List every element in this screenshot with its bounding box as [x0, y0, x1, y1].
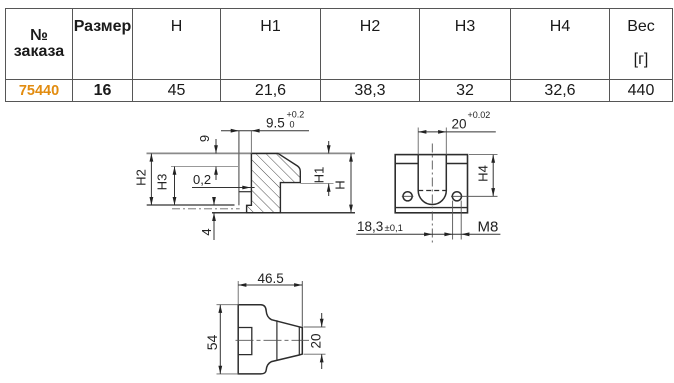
dimension 20 lower arrow (plan): [321, 354, 323, 369]
svg-text:9: 9: [197, 135, 212, 142]
inner ledge extension line: [171, 166, 239, 168]
plan view outline: [238, 305, 302, 374]
dimension 9.5 line: [221, 130, 309, 132]
svg-text:20: 20: [309, 333, 324, 348]
dimension H2 line: [150, 153, 152, 205]
svg-text:54: 54: [204, 335, 220, 351]
right hole centerline / H4 extension: [451, 195, 498, 197]
svg-text:9.5: 9.5: [266, 116, 285, 131]
dimension H line: [350, 153, 352, 212]
bottom-left dash-dot centerline: [172, 208, 240, 210]
left view top surface line: [147, 152, 356, 154]
dimension 20 line (front): [418, 131, 496, 133]
slot left wall front: [417, 155, 419, 191]
front view lower inner line: [395, 207, 467, 209]
left view bottom line: [212, 212, 355, 214]
svg-text:+0.2: +0.2: [287, 110, 305, 120]
svg-text:H1: H1: [311, 167, 326, 184]
slot bottom arc: [418, 191, 446, 205]
dimension H4 line: [492, 155, 494, 197]
leader 0,2 line: [192, 187, 255, 189]
dimension 46.5 line: [238, 284, 302, 286]
vertical centerline front: [431, 144, 433, 245]
dimension H1 (lower arrow): [328, 184, 330, 197]
svg-text:0: 0: [290, 120, 295, 130]
54 top extension: [217, 304, 239, 306]
plan horizontal centerline: [236, 339, 310, 341]
H4 top extension line: [469, 154, 498, 156]
plan inner slot rectangle: [238, 328, 252, 355]
front view upper inner line left: [395, 163, 418, 165]
54 bottom extension: [217, 373, 239, 375]
left side hole M8: [403, 192, 412, 201]
dimension H1 (upper arrow): [328, 141, 330, 153]
46.5 left extension: [237, 281, 239, 305]
dimension 4 (lower arrow): [213, 213, 215, 240]
slot right wall extension: [250, 131, 252, 154]
svg-text:H3: H3: [154, 174, 169, 191]
svg-text:4: 4: [199, 228, 214, 235]
slot right wall front: [445, 155, 447, 191]
hatched section polygon: [247, 153, 301, 212]
dimension 54 line: [219, 305, 221, 374]
dimension 9 (upper arrow): [215, 139, 217, 153]
svg-text:0,2: 0,2: [193, 172, 211, 187]
slot inner step line: [239, 191, 252, 193]
svg-text:46.5: 46.5: [258, 271, 284, 286]
svg-text:20: 20: [452, 116, 467, 131]
front view upper inner line right: [446, 163, 467, 165]
bottom-left surface line: [147, 204, 235, 206]
H1 bottom extension line: [300, 183, 333, 185]
svg-text:M8: M8: [478, 219, 499, 236]
slot left wall: [238, 131, 240, 206]
plan slot-bottom edge line: [276, 320, 278, 360]
svg-text:18,3: 18,3: [357, 219, 383, 234]
dimension 4 (upper arrow): [213, 198, 215, 206]
dimension 20 upper arrow (plan): [321, 313, 323, 327]
bottom dimension line 18,3 / M8: [356, 233, 500, 235]
plan neck inner edge: [298, 327, 300, 355]
left hole centerline: [402, 195, 414, 197]
dimension 9 (lower arrow): [215, 167, 217, 181]
dimension H3 line: [174, 167, 176, 206]
hole wall extension lines below: [452, 201, 454, 240]
svg-text:H2: H2: [133, 169, 148, 186]
data table: [5, 8, 673, 102]
svg-text:±0,1: ±0,1: [385, 223, 403, 234]
front view outer rectangle: [395, 155, 467, 213]
20 top extension (plan): [304, 326, 326, 328]
svg-text:+0.02: +0.02: [468, 110, 491, 120]
right side hole M8: [452, 192, 461, 201]
hidden slot bottom dashed: [418, 190, 446, 192]
20 bottom extension (plan): [304, 353, 326, 355]
46.5 right extension: [301, 281, 303, 327]
svg-text:H4: H4: [475, 165, 490, 182]
svg-text:H: H: [332, 180, 347, 189]
slot wall extensions above: [417, 128, 419, 155]
